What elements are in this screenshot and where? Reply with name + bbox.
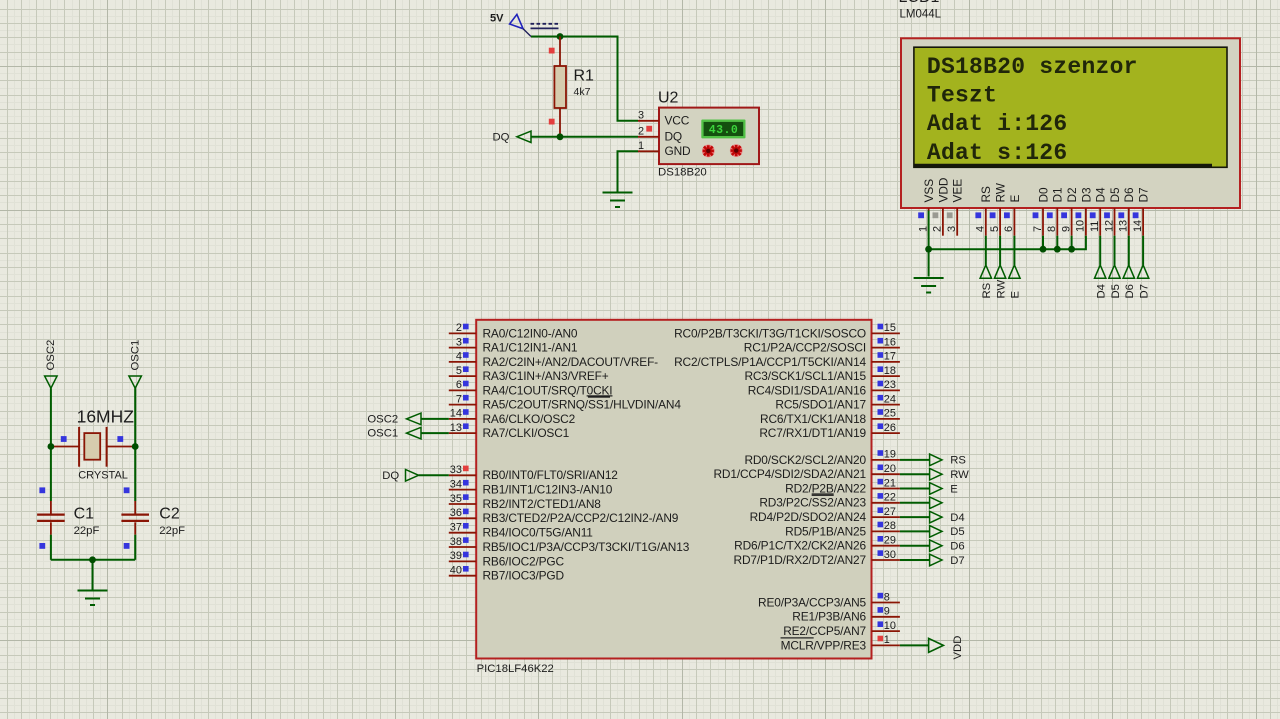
- svg-text:Teszt: Teszt: [927, 82, 997, 108]
- svg-text:RW: RW: [995, 280, 1007, 299]
- svg-text:5V: 5V: [490, 13, 504, 25]
- wire pin 20 to terminal: [900, 473, 930, 475]
- LCD pin 6 E: [1003, 195, 1022, 236]
- svg-text:RD0/SCK2/SCL2/AN20: RD0/SCK2/SCL2/AN20: [744, 453, 866, 467]
- terminal OSC1 (top of crystal net): [129, 340, 142, 388]
- svg-text:RB7/IOC3/PGD: RB7/IOC3/PGD: [483, 569, 565, 583]
- svg-text:OSC2: OSC2: [367, 414, 398, 426]
- svg-text:20: 20: [884, 463, 896, 475]
- svg-text:33: 33: [450, 464, 462, 476]
- terminal D5: [930, 526, 965, 539]
- svg-text:RB5/IOC1/P3A/CCP3/T3CKI/T1G/AN: RB5/IOC1/P3A/CCP3/T3CKI/T1G/AN13: [483, 540, 690, 554]
- svg-text:RE1/P3B/AN6: RE1/P3B/AN6: [792, 610, 866, 624]
- junction: [1068, 246, 1075, 253]
- pin 21 RD2 (right): [785, 477, 900, 495]
- svg-text:D7: D7: [950, 555, 964, 567]
- svg-text:D5: D5: [950, 526, 964, 538]
- microcontroller U1 PIC18LF46K22 body: [476, 320, 871, 675]
- svg-text:16MHZ: 16MHZ: [77, 406, 135, 426]
- pin 7 RA5 (left): [449, 393, 682, 411]
- LCD pin 10 D3: [1075, 187, 1094, 236]
- capacitor C1 22pF: [37, 487, 99, 559]
- pin 10 RE2 (right): [783, 620, 900, 638]
- svg-text:RD4/P2D/SDO2/AN24: RD4/P2D/SDO2/AN24: [750, 510, 867, 524]
- wire LCD D5 to terminal: [1114, 236, 1116, 265]
- LCD LCD1 LM044L: [899, 0, 1241, 208]
- svg-text:5: 5: [456, 365, 462, 377]
- svg-text:GND: GND: [665, 144, 692, 158]
- svg-text:RD2/P2B/AN22: RD2/P2B/AN22: [785, 481, 866, 495]
- svg-text:U2: U2: [658, 89, 679, 106]
- svg-text:VEE: VEE: [951, 179, 965, 203]
- svg-text:2: 2: [638, 125, 644, 137]
- pin 2 RA0 (left): [449, 322, 578, 340]
- svg-text:VSS: VSS: [922, 179, 936, 203]
- terminal OSC2 (chip pin 14): [367, 413, 421, 425]
- pin 40 RB7 (left): [449, 565, 565, 583]
- svg-text:7: 7: [1032, 226, 1044, 232]
- svg-text:RC3/SCK1/SCL1/AN15: RC3/SCK1/SCL1/AN15: [744, 369, 866, 383]
- LCD pin 13 D6: [1118, 187, 1137, 236]
- svg-text:D1: D1: [1051, 187, 1065, 202]
- wire pin 30 to terminal: [900, 559, 930, 561]
- pin 1 MCLR (right): [781, 634, 900, 652]
- svg-text:DS18B20 szenzor: DS18B20 szenzor: [927, 54, 1138, 80]
- svg-text:14: 14: [450, 408, 462, 420]
- junction at ground drop: [89, 556, 96, 563]
- svg-text:38: 38: [450, 536, 462, 548]
- wire DQ net to U2: [531, 136, 638, 138]
- ground (below LCD pin1): [914, 278, 944, 293]
- svg-text:RD6/P1C/TX2/CK2/AN26: RD6/P1C/TX2/CK2/AN26: [734, 539, 866, 553]
- wire OSC1 to pin 13: [421, 432, 449, 434]
- wire pin 22 to terminal: [900, 502, 930, 504]
- wire pin 29 to terminal: [900, 545, 930, 547]
- svg-text:RS: RS: [950, 455, 966, 467]
- svg-text:OSC1: OSC1: [367, 428, 398, 440]
- svg-text:5: 5: [989, 226, 1001, 232]
- svg-text:17: 17: [884, 351, 896, 363]
- svg-text:6: 6: [1003, 226, 1015, 232]
- wire pin 19 to terminal: [900, 459, 930, 461]
- svg-text:7: 7: [456, 393, 462, 405]
- pin 22 RD3 (right): [759, 492, 900, 510]
- svg-text:28: 28: [884, 520, 896, 532]
- LCD pin 8 D1: [1046, 187, 1065, 235]
- svg-text:37: 37: [450, 522, 462, 534]
- svg-text:12: 12: [1103, 220, 1115, 232]
- wire 5V to R1 and U2 VCC: [531, 37, 638, 121]
- svg-text:27: 27: [884, 506, 896, 518]
- wire LCD D2 down to bus: [1071, 236, 1073, 250]
- wire pin 27 to terminal: [900, 516, 930, 518]
- terminal E (below LCD): [1009, 265, 1022, 299]
- wire LCD D1 down to bus: [1056, 236, 1058, 250]
- LCD pin 11 D4: [1089, 187, 1108, 236]
- svg-text:RA6/CLKO/OSC2: RA6/CLKO/OSC2: [483, 412, 576, 426]
- svg-text:C1: C1: [74, 506, 95, 523]
- wire LCD D6 to terminal: [1128, 236, 1130, 265]
- svg-text:RB4/IOC0/T5G/AN11: RB4/IOC0/T5G/AN11: [483, 526, 594, 540]
- svg-text:DQ: DQ: [665, 130, 683, 144]
- svg-text:RA5/C2OUT/SRNQ/SS1/HLVDIN/AN4: RA5/C2OUT/SRNQ/SS1/HLVDIN/AN4: [483, 398, 682, 412]
- svg-text:4k7: 4k7: [574, 86, 591, 98]
- svg-text:PIC18LF46K22: PIC18LF46K22: [477, 663, 554, 675]
- terminal D4: [930, 511, 965, 524]
- wire pin 21 to terminal: [900, 488, 930, 490]
- svg-text:C2: C2: [159, 506, 180, 523]
- svg-text:22pF: 22pF: [159, 525, 185, 537]
- wire LCD D7 to terminal: [1142, 236, 1144, 265]
- pin 35 RB2 (left): [449, 493, 601, 511]
- svg-text:RA1/C12IN1-/AN1: RA1/C12IN1-/AN1: [483, 341, 578, 355]
- svg-text:D7: D7: [1137, 187, 1151, 202]
- svg-text:35: 35: [450, 493, 462, 505]
- svg-text:10: 10: [1075, 220, 1087, 232]
- LCD pin 12 D5: [1103, 187, 1122, 236]
- svg-text:D6: D6: [950, 541, 964, 553]
- terminal RS: [930, 454, 967, 467]
- pin 5 RA3 (left): [449, 365, 609, 383]
- terminal RW: [930, 468, 970, 481]
- svg-text:RC2/CTPLS/P1A/CCP1/T5CKI/AN14: RC2/CTPLS/P1A/CCP1/T5CKI/AN14: [674, 355, 866, 369]
- svg-text:D3: D3: [1079, 187, 1093, 203]
- wire LCD VSS to ground bus: [928, 211, 930, 277]
- svg-text:RC7/RX1/DT1/AN19: RC7/RX1/DT1/AN19: [759, 426, 866, 440]
- svg-text:Adat s:126: Adat s:126: [927, 140, 1068, 166]
- svg-text:RE2/CCP5/AN7: RE2/CCP5/AN7: [783, 624, 866, 638]
- pin 38 RB5 (left): [449, 536, 690, 554]
- junction crystal left: [48, 443, 55, 450]
- svg-text:LCD1: LCD1: [899, 0, 940, 6]
- LCD pin 4 RS: [975, 186, 994, 236]
- svg-text:LM044L: LM044L: [900, 9, 942, 21]
- pin 9 RE1 (right): [792, 606, 900, 624]
- terminal D6: [930, 540, 965, 553]
- wire LCD RS to terminal: [985, 236, 987, 265]
- svg-text:D5: D5: [1110, 284, 1122, 298]
- pin 16 RC1 (right): [744, 336, 900, 354]
- pin 33 RB0 (left): [449, 464, 618, 482]
- svg-text:24: 24: [884, 393, 896, 405]
- svg-text:8: 8: [884, 591, 890, 603]
- svg-text:D4: D4: [1096, 284, 1108, 298]
- svg-text:4: 4: [456, 351, 462, 363]
- wire LCD E to terminal: [1013, 236, 1015, 265]
- svg-text:Adat i:126: Adat i:126: [927, 111, 1068, 137]
- svg-text:RC6/TX1/CK1/AN18: RC6/TX1/CK1/AN18: [760, 412, 867, 426]
- svg-text:RD1/CCP4/SDI2/SDA2/AN21: RD1/CCP4/SDI2/SDA2/AN21: [713, 467, 866, 481]
- pin 8 RE0 (right): [758, 591, 900, 609]
- svg-text:OSC1: OSC1: [130, 340, 142, 371]
- svg-text:18: 18: [884, 365, 896, 377]
- resistor R1 4k7: [549, 37, 594, 137]
- terminal VDD: [929, 636, 964, 660]
- LCD pin 14 D7: [1132, 187, 1151, 235]
- svg-text:9: 9: [1060, 226, 1072, 232]
- terminal E: [930, 483, 959, 496]
- pin 3 RA1 (left): [449, 336, 578, 354]
- capacitor C2 22pF: [121, 487, 185, 559]
- svg-text:19: 19: [884, 449, 896, 461]
- svg-text:39: 39: [450, 550, 462, 562]
- pin 20 RD1 (right): [713, 463, 899, 481]
- pin 18 RC3 (right): [744, 365, 899, 383]
- pin 29 RD6 (right): [734, 535, 900, 553]
- pin 25 RC6 (right): [760, 408, 900, 426]
- pin 27 RD4 (right): [750, 506, 900, 524]
- svg-text:22pF: 22pF: [74, 525, 100, 537]
- wire LCD RW to terminal: [999, 236, 1001, 265]
- svg-text:RB3/CTED2/P2A/CCP2/C12IN2-/AN9: RB3/CTED2/P2A/CCP2/C12IN2-/AN9: [483, 511, 679, 525]
- svg-text:9: 9: [884, 606, 890, 618]
- svg-text:RC4/SDI1/SDA1/AN16: RC4/SDI1/SDA1/AN16: [748, 383, 867, 397]
- terminal DQ (left of R1): [493, 131, 532, 143]
- svg-text:D6: D6: [1124, 284, 1136, 298]
- svg-text:13: 13: [1118, 220, 1130, 232]
- svg-text:R1: R1: [574, 68, 595, 85]
- svg-text:D7: D7: [1138, 284, 1150, 298]
- svg-text:RB0/INT0/FLT0/SRI/AN12: RB0/INT0/FLT0/SRI/AN12: [483, 468, 619, 482]
- svg-text:RA7/CLKI/OSC1: RA7/CLKI/OSC1: [483, 426, 570, 440]
- wire U2 GND to ground: [618, 151, 639, 192]
- svg-text:RD3/P2C/SS2/AN23: RD3/P2C/SS2/AN23: [759, 496, 866, 510]
- wire OSC2 to pin 14: [421, 418, 449, 420]
- junction crystal right: [132, 443, 139, 450]
- terminal (unlabelled): [930, 497, 942, 509]
- svg-text:D4: D4: [950, 512, 964, 524]
- LCD pin 5 RW: [989, 182, 1008, 236]
- wire ground bus under LCD (D0-D3 to VSS): [929, 236, 1086, 250]
- ground (below U2): [603, 193, 633, 208]
- pin 13 RA7 (left): [449, 422, 570, 440]
- svg-text:26: 26: [884, 422, 896, 434]
- junction R1 bottom / DQ: [557, 133, 564, 140]
- svg-text:E: E: [1008, 195, 1022, 203]
- svg-text:MCLR/VPP/RE3: MCLR/VPP/RE3: [781, 638, 867, 652]
- svg-text:RA0/C12IN0-/AN0: RA0/C12IN0-/AN0: [483, 326, 578, 340]
- pin 36 RB3 (left): [449, 507, 679, 525]
- svg-text:RS: RS: [979, 186, 993, 203]
- svg-text:1: 1: [884, 634, 890, 646]
- svg-text:25: 25: [884, 408, 896, 420]
- LCD pin 1 VSS: [917, 179, 936, 236]
- pin 14 RA6 (left): [449, 408, 576, 426]
- svg-text:16: 16: [884, 336, 896, 348]
- svg-text:3: 3: [946, 226, 958, 232]
- terminal D7 (below LCD): [1137, 265, 1150, 299]
- svg-text:E: E: [950, 483, 958, 495]
- svg-text:14: 14: [1132, 220, 1144, 232]
- wire LCD D0 down to bus: [1042, 236, 1044, 250]
- svg-text:30: 30: [884, 549, 896, 561]
- crystal X1 16MHZ: [51, 406, 135, 481]
- junction VSS/bus: [925, 246, 932, 253]
- svg-text:13: 13: [450, 422, 462, 434]
- svg-text:15: 15: [884, 322, 896, 334]
- LCD pin 7 D0: [1032, 187, 1051, 236]
- svg-text:6: 6: [456, 379, 462, 391]
- svg-text:21: 21: [884, 477, 896, 489]
- pin 4 RA2 (left): [449, 351, 658, 369]
- svg-text:RA2/C2IN+/AN2/DACOUT/VREF-: RA2/C2IN+/AN2/DACOUT/VREF-: [483, 355, 659, 369]
- LCD pin 2 VDD: [932, 178, 951, 236]
- svg-text:RD7/P1D/RX2/DT2/AN27: RD7/P1D/RX2/DT2/AN27: [734, 553, 867, 567]
- wire C1/C2 bottoms to ground: [51, 559, 135, 561]
- ground (below crystal caps): [78, 591, 108, 606]
- svg-text:29: 29: [884, 535, 896, 547]
- svg-text:RS: RS: [981, 282, 993, 298]
- wire MCLR to VDD terminal: [900, 644, 929, 646]
- svg-text:VCC: VCC: [665, 114, 690, 128]
- svg-text:23: 23: [884, 379, 896, 391]
- svg-text:36: 36: [450, 507, 462, 519]
- svg-text:3: 3: [638, 109, 644, 121]
- pin 23 RC4 (right): [748, 379, 900, 397]
- svg-text:VDD: VDD: [936, 178, 950, 203]
- svg-text:DS18B20: DS18B20: [658, 167, 707, 179]
- LCD pin 3 VEE: [946, 179, 965, 236]
- wire DQ to pin 33: [419, 474, 449, 476]
- svg-text:10: 10: [884, 620, 896, 632]
- svg-text:RW: RW: [994, 182, 1008, 202]
- wire OSC2 down to crystal/C1: [50, 388, 52, 501]
- svg-text:RB2/INT2/CTED1/AN8: RB2/INT2/CTED1/AN8: [483, 497, 602, 511]
- svg-text:8: 8: [1046, 226, 1058, 232]
- svg-text:D4: D4: [1094, 187, 1108, 203]
- svg-text:RC5/SDO1/AN17: RC5/SDO1/AN17: [775, 398, 866, 412]
- pin 34 RB1 (left): [449, 478, 613, 496]
- terminal OSC1 (chip pin 13): [367, 427, 421, 439]
- svg-text:RC1/P2A/CCP2/SOSCI: RC1/P2A/CCP2/SOSCI: [744, 341, 866, 355]
- svg-text:40: 40: [450, 565, 462, 577]
- svg-text:DQ: DQ: [382, 470, 399, 482]
- terminal RS (below LCD): [980, 265, 993, 299]
- pin 6 RA4 (left): [449, 379, 613, 397]
- svg-text:43.0: 43.0: [709, 124, 739, 137]
- power terminal 5V: [490, 13, 559, 37]
- pin 24 RC5 (right): [775, 393, 899, 411]
- svg-text:RA4/C1OUT/SRQ/T0CKI: RA4/C1OUT/SRQ/T0CKI: [483, 383, 613, 397]
- svg-text:4: 4: [975, 226, 987, 232]
- svg-text:1: 1: [638, 140, 644, 152]
- svg-text:22: 22: [884, 492, 896, 504]
- pin 15 RC0 (right): [674, 322, 900, 340]
- svg-text:2: 2: [932, 226, 944, 232]
- svg-text:RD5/P1B/AN25: RD5/P1B/AN25: [785, 524, 866, 538]
- svg-text:RB6/IOC2/PGC: RB6/IOC2/PGC: [483, 554, 565, 568]
- svg-text:D2: D2: [1065, 187, 1079, 202]
- terminal DQ (chip pin 33): [382, 470, 418, 483]
- pin 17 RC2 (right): [674, 351, 900, 369]
- wire OSC1 down to crystal/C2: [134, 388, 136, 501]
- svg-text:VDD: VDD: [952, 636, 964, 660]
- svg-text:CRYSTAL: CRYSTAL: [78, 470, 128, 482]
- terminal RW (below LCD): [994, 265, 1007, 299]
- junction: [1054, 246, 1061, 253]
- terminal D5 (below LCD): [1109, 265, 1122, 299]
- svg-text:D6: D6: [1122, 187, 1136, 203]
- svg-text:D5: D5: [1108, 187, 1122, 203]
- svg-text:11: 11: [1089, 221, 1101, 232]
- junction: [1040, 246, 1047, 253]
- sensor U2 DS18B20: [638, 89, 759, 178]
- svg-text:OSC2: OSC2: [45, 340, 57, 371]
- pin 28 RD5 (right): [785, 520, 900, 538]
- wire pin 28 to terminal: [900, 530, 930, 532]
- LCD pin 9 D2: [1060, 187, 1079, 235]
- svg-text:RE0/P3A/CCP3/AN5: RE0/P3A/CCP3/AN5: [758, 595, 867, 609]
- svg-text:2: 2: [456, 322, 462, 334]
- svg-text:3: 3: [456, 336, 462, 348]
- svg-text:RW: RW: [950, 469, 969, 481]
- svg-text:34: 34: [450, 478, 462, 490]
- pin 39 RB6 (left): [449, 550, 565, 568]
- terminal D4 (below LCD): [1095, 265, 1108, 299]
- svg-text:E: E: [1010, 291, 1022, 299]
- terminal OSC2 (top of crystal net): [45, 340, 58, 388]
- svg-text:RA3/C1IN+/AN3/VREF+: RA3/C1IN+/AN3/VREF+: [483, 369, 609, 383]
- wire junction at R1 top: [557, 33, 564, 40]
- svg-text:RC0/P2B/T3CKI/T3G/T1CKI/SOSCO: RC0/P2B/T3CKI/T3G/T1CKI/SOSCO: [674, 326, 866, 340]
- pin 30 RD7 (right): [734, 549, 900, 567]
- svg-text:RB1/INT1/C12IN3-/AN10: RB1/INT1/C12IN3-/AN10: [483, 483, 613, 497]
- pin 19 RD0 (right): [744, 449, 899, 467]
- terminal D6 (below LCD): [1123, 265, 1136, 299]
- svg-text:D0: D0: [1036, 187, 1050, 203]
- wire LCD D4 to terminal: [1099, 236, 1101, 265]
- pin 26 RC7 (right): [759, 422, 900, 440]
- svg-text:DQ: DQ: [493, 132, 510, 144]
- terminal D7: [930, 554, 965, 567]
- pin 37 RB4 (left): [449, 522, 593, 540]
